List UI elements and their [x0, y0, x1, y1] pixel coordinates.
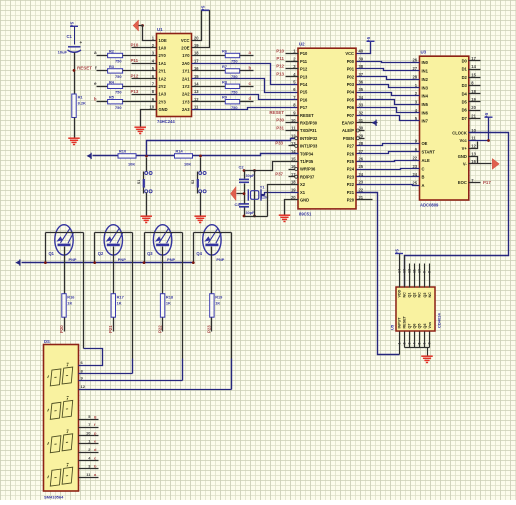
svg-text:GND: GND [159, 107, 168, 112]
svg-text:15: 15 [291, 157, 296, 162]
svg-text:P04: P04 [347, 90, 355, 95]
oscillator rails [245, 170, 255, 172]
svg-text:10K: 10K [184, 161, 191, 166]
resistor R4 750 [97, 86, 108, 88]
svg-text:16: 16 [291, 164, 296, 169]
node at U1 pin1 tie [141, 24, 144, 27]
wires U2 P2.7-P2.2 to U3 control staircase [357, 144, 420, 146]
svg-text:R5: R5 [109, 95, 115, 100]
svg-text:NC: NC [418, 292, 422, 298]
svg-text:8.2K: 8.2K [78, 101, 86, 106]
resistor R18 1K [160, 294, 164, 318]
svg-text:12: 12 [471, 144, 476, 149]
svg-text:2OE: 2OE [181, 46, 189, 51]
svg-text:2Y1: 2Y1 [159, 69, 167, 74]
svg-text:INT1/P33: INT1/P33 [300, 144, 318, 149]
wires U2 P0 port to U3 IN0-IN7 [357, 62, 420, 63]
svg-text:RXD/P30: RXD/P30 [300, 121, 318, 126]
svg-text:9: 9 [423, 271, 427, 273]
svg-text:R10: R10 [119, 149, 126, 154]
U2 ALE PSEN stubs [360, 130, 365, 132]
U2 pin bubbles (INT0 INT1 WR RD PSEN ALE) [295, 137, 298, 140]
svg-text:P20: P20 [347, 198, 355, 203]
svg-text:GND: GND [300, 198, 309, 203]
wire crystal to U2 X1 [261, 194, 265, 196]
wire R10 to node1 and R14 [137, 155, 175, 157]
svg-text:D4: D4 [462, 91, 468, 96]
svg-text:RD/P37: RD/P37 [300, 174, 315, 179]
svg-text:1A3: 1A3 [159, 92, 167, 97]
svg-text:P03: P03 [347, 82, 355, 87]
wire GND to V- jog [469, 157, 478, 164]
svg-text:26: 26 [359, 157, 364, 162]
svg-text:39: 39 [359, 56, 364, 61]
svg-text:20: 20 [471, 105, 476, 110]
U2 P2.0 stub [357, 199, 373, 201]
U3 EOC stub + P17 label [469, 182, 481, 184]
resistor R7 750 [192, 70, 226, 72]
svg-text:P33: P33 [275, 141, 283, 146]
svg-text:P11: P11 [276, 56, 284, 61]
svg-text:2Y0: 2Y0 [159, 53, 167, 58]
svg-text:1OE: 1OE [159, 38, 167, 43]
U1 input stubs from P1.0-P1.3 net labels [132, 47, 157, 49]
resistor R3 750 [97, 70, 108, 72]
wire V- to red power arrow [469, 163, 492, 165]
Q3 base wire [162, 247, 164, 294]
svg-text:12: 12 [81, 384, 86, 389]
ground for U1 pin 10 [141, 110, 157, 127]
svg-text:P21: P21 [108, 325, 113, 333]
svg-text:+5: +5 [70, 21, 75, 27]
svg-text:ALE: ALE [422, 158, 430, 163]
wire R18 to net label [162, 318, 164, 332]
svg-text:21: 21 [471, 113, 476, 118]
wire Q1 collector to DS pin 6 [79, 349, 103, 366]
svg-text:14: 14 [194, 82, 199, 87]
svg-text:S1: S1 [137, 180, 141, 184]
wire R19 to net label [211, 318, 213, 332]
svg-text:P14: P14 [300, 82, 308, 87]
Q3 emitter/collector loop wires [145, 232, 183, 234]
U5 +5 power [395, 253, 403, 255]
svg-text:Vss: Vss [428, 322, 432, 329]
svg-text:R19: R19 [215, 294, 223, 299]
resistor R17 1K [111, 294, 115, 318]
display DS 4-digit 7-segment module body [44, 345, 79, 492]
svg-text:35: 35 [359, 87, 364, 92]
svg-text:750: 750 [115, 105, 122, 110]
svg-text:D3: D3 [462, 83, 468, 88]
svg-text:EOC: EOC [458, 180, 467, 185]
power +5 for reset circuit [70, 25, 78, 27]
svg-text:10: 10 [418, 269, 422, 273]
svg-text:R2: R2 [109, 49, 115, 54]
wire bottom rail to U2 X2 [268, 185, 299, 217]
svg-text:17: 17 [194, 58, 199, 63]
ground below S2 [194, 215, 206, 217]
svg-text:4: 4 [412, 343, 416, 345]
svg-text:22: 22 [412, 155, 417, 160]
svg-text:Q2: Q2 [98, 251, 104, 256]
svg-text:14: 14 [471, 64, 476, 69]
svg-text:P26: P26 [347, 151, 355, 156]
svg-text:P10: P10 [300, 51, 308, 56]
svg-text:2A1: 2A1 [182, 76, 190, 81]
Q4 emitter/collector loop wires [194, 232, 232, 234]
svg-text:P27: P27 [347, 144, 355, 149]
svg-text:B: B [422, 175, 425, 180]
ground below R1 [68, 137, 80, 139]
+5 power for U3 [485, 116, 493, 118]
transistor Q3 PNP [153, 225, 171, 255]
power +5 arrow for key pullups [87, 154, 91, 158]
digit driver +5 rail [22, 262, 194, 264]
resistor R2 750 [97, 55, 108, 57]
svg-text:R9: R9 [222, 95, 228, 100]
power +5 VCC arrow feeding U1 pin1 (red) [133, 20, 139, 31]
svg-text:INPUT: INPUT [398, 317, 402, 329]
resistor R19 1K [210, 294, 214, 318]
svg-text:6: 6 [423, 343, 427, 345]
svg-text:5: 5 [418, 343, 422, 345]
U1 VCC +5 power net (pins 20,19) [192, 11, 210, 48]
svg-text:P23: P23 [207, 325, 212, 333]
svg-text:Q1: Q1 [49, 251, 55, 256]
svg-text:PNP: PNP [216, 257, 224, 262]
rail junction Q4 [192, 261, 195, 264]
svg-text:P20: P20 [59, 325, 64, 333]
svg-text:+5: +5 [395, 248, 400, 254]
power +5 arrow for digit drivers [15, 260, 19, 264]
svg-text:D2: D2 [462, 75, 468, 80]
U2 EA pin +5 arrow [357, 122, 378, 124]
7-segment digit 3 [50, 436, 61, 453]
svg-text:1Y3: 1Y3 [182, 99, 190, 104]
U5 bottom pins [399, 332, 401, 355]
Q2 emitter/collector loop wires [95, 232, 133, 234]
svg-text:10K: 10K [128, 161, 135, 166]
svg-text:P12: P12 [131, 73, 139, 78]
svg-text:d: d [249, 96, 252, 101]
svg-text:ADC0809: ADC0809 [420, 203, 439, 208]
svg-text:ALE/P: ALE/P [342, 128, 354, 133]
svg-text:X2: X2 [300, 182, 306, 187]
wire arrow to cap node [237, 193, 245, 195]
svg-text:P07: P07 [347, 113, 355, 118]
svg-text:IN5: IN5 [422, 102, 429, 107]
svg-text:P30: P30 [276, 118, 284, 123]
svg-text:Y1: Y1 [260, 185, 266, 190]
wires U1 right side to U2 P1.4-P1.7 (staircase) [192, 64, 299, 85]
svg-text:30pF: 30pF [246, 211, 256, 215]
7-segment digit 1 [50, 369, 61, 386]
wire Q3 collector to DS pin 9 [79, 380, 183, 382]
svg-text:C1: C1 [67, 34, 73, 39]
U2 P1.0-P1.3 net label stubs [286, 53, 299, 55]
crystal Y1 12M [247, 189, 249, 200]
Q4 base wire [211, 247, 213, 294]
svg-text:V-: V- [463, 162, 468, 167]
svg-text:P11: P11 [131, 58, 139, 63]
wire R14 to node2 toward U2 T0 [193, 154, 299, 156]
wire +5 to R10 [93, 155, 119, 157]
svg-text:R17: R17 [117, 294, 124, 299]
svg-text:DS: DS [44, 339, 50, 344]
svg-text:+5: +5 [366, 36, 371, 42]
svg-text:3: 3 [407, 343, 411, 345]
Q1 emitter/collector loop wires [46, 232, 84, 234]
wire U2 P2.1 to U5 reset [357, 193, 400, 355]
svg-text:12: 12 [291, 133, 296, 138]
wire V+ jog [469, 142, 478, 149]
svg-text:36: 36 [359, 80, 364, 85]
svg-text:PNP: PNP [69, 257, 77, 262]
node2 junction [199, 155, 202, 158]
svg-text:15: 15 [471, 72, 476, 77]
svg-text:U2: U2 [299, 42, 305, 47]
svg-text:P16: P16 [300, 97, 308, 102]
svg-text:P17: P17 [483, 180, 491, 185]
svg-text:P22: P22 [157, 325, 162, 333]
U5 top pins with numbers and names [399, 254, 401, 288]
svg-text:INT0/P32: INT0/P32 [300, 136, 318, 141]
svg-text:RESET: RESET [300, 113, 314, 118]
svg-text:CLOCK: CLOCK [452, 130, 467, 135]
svg-text:IN2: IN2 [422, 77, 429, 82]
svg-text:12: 12 [407, 269, 411, 273]
svg-text:89C51: 89C51 [299, 211, 312, 216]
svg-text:30pF: 30pF [246, 174, 256, 178]
svg-text:U3: U3 [421, 50, 427, 55]
svg-text:Q3: Q3 [147, 251, 153, 256]
svg-text:+5: +5 [201, 5, 206, 11]
svg-text:P12: P12 [276, 64, 284, 69]
svg-text:WR/P36: WR/P36 [300, 167, 316, 172]
svg-text:Q1: Q1 [408, 293, 412, 298]
svg-text:P24: P24 [347, 167, 355, 172]
wire top rail to U2 T1 [255, 162, 299, 171]
junction dots oscillator [243, 169, 246, 172]
svg-text:Vcc: Vcc [460, 138, 468, 143]
svg-text:750: 750 [115, 74, 122, 79]
svg-text:2A3: 2A3 [182, 107, 190, 112]
switch S2 [200, 158, 202, 172]
svg-text:EA/VP: EA/VP [342, 121, 355, 126]
svg-text:1K: 1K [117, 300, 122, 305]
svg-text:IN7: IN7 [422, 119, 429, 124]
ADC U3 ADC0809 body [420, 56, 469, 200]
resistor R9 750 [192, 101, 226, 103]
node1 junction [145, 155, 148, 158]
svg-text:750: 750 [115, 90, 122, 95]
svg-text:1K: 1K [166, 300, 171, 305]
svg-text:25: 25 [412, 180, 417, 185]
svg-text:750: 750 [115, 59, 122, 64]
svg-text:P25: P25 [347, 159, 355, 164]
svg-text:PNP: PNP [118, 257, 126, 262]
svg-text:750: 750 [231, 90, 238, 95]
svg-text:C: C [422, 166, 425, 171]
wire R17 to net label [113, 318, 115, 332]
Q1 base wire [64, 247, 66, 294]
svg-text:P11: P11 [300, 59, 308, 64]
svg-text:VDD: VDD [398, 289, 402, 297]
svg-text:P05: P05 [347, 97, 355, 102]
svg-text:C2: C2 [239, 165, 245, 170]
svg-text:R3: R3 [109, 64, 115, 69]
U5 ground bus [405, 347, 430, 349]
wire R16 to net label [64, 318, 66, 332]
svg-text:A: A [422, 183, 425, 188]
svg-text:NC: NC [403, 292, 407, 298]
counter U5 CD4024 body [396, 287, 435, 331]
wire U3 CLOCK to U5 clock input [405, 133, 509, 288]
svg-text:U5: U5 [390, 324, 395, 330]
resistor R1 8.2K [72, 94, 76, 118]
svg-text:2Y3: 2Y3 [159, 99, 167, 104]
svg-text:28: 28 [412, 74, 417, 79]
wire R1 to ground [74, 118, 76, 138]
transistor Q1 PNP [55, 225, 73, 255]
ground below S1 [140, 215, 152, 217]
wire S1 to ground [146, 193, 148, 216]
svg-text:22: 22 [359, 187, 364, 192]
svg-text:P31: P31 [276, 125, 284, 130]
svg-text:2A2: 2A2 [182, 92, 190, 97]
svg-text:20: 20 [194, 35, 199, 40]
svg-text:T0/P34: T0/P34 [300, 151, 314, 156]
svg-text:1Y1: 1Y1 [182, 69, 190, 74]
svg-text:RESET: RESET [269, 110, 284, 115]
svg-text:R18: R18 [166, 294, 174, 299]
svg-text:IN0: IN0 [422, 60, 429, 65]
ground below U5 [421, 355, 433, 357]
svg-text:D6: D6 [462, 108, 468, 113]
svg-text:VCC: VCC [345, 51, 354, 56]
transistor Q2 PNP [104, 225, 122, 255]
U2 VCC +5 (pin 40) [357, 42, 371, 54]
svg-text:13: 13 [402, 269, 406, 273]
wire OE tie to pin1 [139, 26, 157, 41]
resistor R10 10K [118, 154, 136, 158]
power arrow (red) for oscillator [231, 187, 237, 201]
svg-text:P10: P10 [131, 43, 139, 48]
svg-text:U1: U1 [157, 27, 163, 32]
svg-text:X1: X1 [300, 190, 306, 195]
svg-text:19: 19 [291, 187, 296, 192]
svg-text:PSEN: PSEN [343, 136, 354, 141]
svg-text:Q6: Q6 [413, 324, 417, 329]
resistor R6 750 [192, 55, 226, 57]
svg-text:Q4: Q4 [196, 251, 202, 256]
svg-text:S2: S2 [191, 180, 195, 184]
svg-text:IN1: IN1 [422, 69, 429, 74]
svg-text:1K: 1K [215, 300, 220, 305]
svg-text:R8: R8 [222, 79, 228, 84]
U2 INT1 stub + P33 label [289, 145, 295, 147]
7-segment digit 2 [50, 402, 61, 419]
svg-text:P00: P00 [347, 59, 355, 64]
svg-text:D1: D1 [462, 67, 468, 72]
svg-text:P15: P15 [300, 90, 308, 95]
rail junction Q2 [93, 261, 96, 264]
svg-text:R14: R14 [176, 149, 184, 154]
svg-text:SM410564: SM410564 [44, 495, 64, 500]
svg-text:1A1: 1A1 [159, 61, 167, 66]
svg-text:D0: D0 [462, 59, 468, 64]
svg-text:P13: P13 [131, 89, 139, 94]
svg-text:P17: P17 [300, 105, 308, 110]
svg-text:13: 13 [471, 151, 476, 156]
svg-text:R16: R16 [67, 294, 75, 299]
svg-text:NC: NC [428, 292, 432, 298]
wire S2 to ground [200, 193, 202, 216]
svg-text:74HC244: 74HC244 [157, 119, 175, 124]
svg-text:D5: D5 [462, 100, 468, 105]
resistor R16 1K [62, 294, 66, 318]
svg-text:1Y2: 1Y2 [182, 84, 190, 89]
svg-text:CD4024: CD4024 [437, 313, 442, 328]
svg-text:P01: P01 [347, 67, 355, 72]
Q2 base wire [113, 247, 115, 294]
resistor R5 750 [97, 101, 108, 103]
svg-text:VCC: VCC [181, 38, 190, 43]
svg-text:+5: +5 [484, 112, 489, 118]
svg-text:RESET: RESET [77, 65, 92, 70]
transistor Q4 PNP [203, 225, 221, 255]
U3 data stubs D0-D7 [469, 60, 481, 62]
svg-text:P10: P10 [276, 48, 284, 53]
wire +5 to C1 [74, 27, 76, 45]
microcontroller U2 89C51 body [298, 48, 356, 209]
svg-text:TXD/P31: TXD/P31 [300, 128, 317, 133]
svg-text:b: b [249, 65, 252, 70]
svg-text:14: 14 [397, 269, 401, 273]
U2 RD stub + P37 label [289, 176, 295, 178]
svg-text:P37: P37 [275, 172, 283, 177]
svg-text:P13: P13 [276, 71, 284, 76]
svg-text:Q7: Q7 [408, 324, 412, 329]
U2 P3.0 P3.1 stubs + labels [286, 122, 299, 124]
svg-text:T1/P35: T1/P35 [300, 159, 314, 164]
svg-text:b: b [94, 96, 97, 101]
svg-text:P02: P02 [347, 74, 355, 79]
svg-text:2A0: 2A0 [182, 61, 190, 66]
svg-text:P12: P12 [300, 67, 308, 72]
svg-text:10uF: 10uF [58, 50, 68, 55]
U2 GND pin 20 to ground [285, 200, 299, 215]
svg-text:8: 8 [428, 271, 432, 273]
rail junction Q3 [143, 261, 146, 264]
svg-text:P21: P21 [347, 190, 355, 195]
svg-text:OE: OE [422, 141, 428, 146]
svg-text:PNP: PNP [167, 257, 175, 262]
svg-text:P22: P22 [347, 182, 355, 187]
rail junction Q1 [44, 261, 47, 264]
svg-text:R4: R4 [109, 79, 115, 84]
wire Q4 collector to DS pin 12 [79, 389, 232, 391]
svg-text:+: + [80, 40, 83, 45]
svg-text:IN4: IN4 [422, 94, 429, 99]
svg-text:2Y2: 2Y2 [159, 84, 167, 89]
svg-text:GND: GND [458, 154, 467, 159]
svg-text:START: START [422, 150, 436, 155]
svg-text:P23: P23 [347, 174, 355, 179]
svg-text:IN3: IN3 [422, 85, 429, 90]
svg-text:11: 11 [412, 269, 416, 273]
resistor R14 10K [175, 154, 193, 158]
